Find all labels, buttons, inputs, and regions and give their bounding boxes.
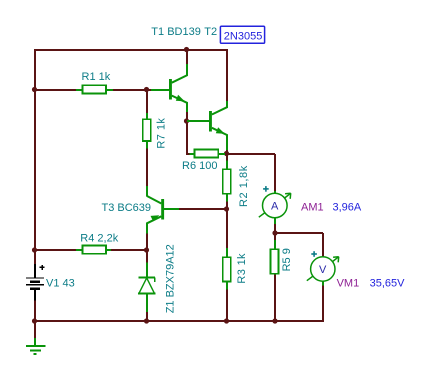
svg-text:AM1: AM1 xyxy=(301,202,324,214)
wire: T3 base row xyxy=(179,208,228,210)
node: left column / R4 junction xyxy=(32,247,37,252)
T3 emitter arrow xyxy=(151,215,160,221)
wire: R5 column lower xyxy=(274,274,276,322)
ammeter plus xyxy=(263,186,269,192)
svg-text:R2 1,8k: R2 1,8k xyxy=(238,165,250,207)
node: Z1 / bottom rail xyxy=(144,318,149,323)
voltmeter plus xyxy=(311,251,317,257)
svg-text:R5 9: R5 9 xyxy=(281,248,293,271)
wire: voltmeter column lower xyxy=(322,285,324,323)
resistor R6 xyxy=(190,149,226,157)
svg-text:R4 2,2k: R4 2,2k xyxy=(80,232,118,244)
wire: left column upper xyxy=(34,49,36,265)
wire: R5 column upper xyxy=(274,233,276,241)
wire: ammeter column upper xyxy=(274,154,276,192)
svg-text:R6 100: R6 100 xyxy=(182,160,217,172)
svg-text:VM1: VM1 xyxy=(337,278,360,290)
resistor R2 xyxy=(223,161,231,202)
wire: voltmeter column upper xyxy=(322,233,324,257)
transistor T2 xyxy=(187,101,227,150)
wire: R1 right segment xyxy=(113,89,151,91)
svg-text:2N3055: 2N3055 xyxy=(224,31,263,43)
svg-text:V: V xyxy=(319,264,327,276)
svg-text:T2: T2 xyxy=(204,26,217,38)
wire: R7 column upper xyxy=(146,90,148,120)
wire: R4 right segment xyxy=(111,249,148,251)
zener diode Z1 xyxy=(138,263,155,313)
wire: R2 column upper xyxy=(226,154,228,161)
resistor R4 xyxy=(76,246,111,254)
svg-text:R3 1k: R3 1k xyxy=(236,253,248,284)
wire: ammeter column lower xyxy=(274,224,276,234)
T2 emitter arrow xyxy=(216,127,225,134)
wire: am node to voltmeter column xyxy=(275,232,323,234)
node: left column / bottom rail junction xyxy=(32,318,37,323)
svg-text:R1 1k: R1 1k xyxy=(82,71,111,83)
wire: T3 emitter to Z1 node xyxy=(146,233,148,250)
resistor R3 xyxy=(223,248,231,290)
wire: R4 left segment xyxy=(34,249,76,251)
wire: top rail xyxy=(34,49,228,51)
wire: T2 collector to top rail corner xyxy=(226,49,228,101)
node: R1 / R7 junction xyxy=(144,87,149,92)
wire: T1 collector to top rail xyxy=(186,49,188,64)
voltmeter VM1 xyxy=(307,257,339,286)
resistor R1 xyxy=(76,85,113,93)
node: T1 collector / top rail xyxy=(184,47,189,52)
resistor R5 xyxy=(271,240,279,274)
label box 2N3055 xyxy=(220,26,264,43)
svg-text:T3 BC639: T3 BC639 xyxy=(102,202,152,214)
wire: R1 left segment xyxy=(34,89,76,91)
wire: T2 emitter to R6 node xyxy=(226,150,228,155)
node: R2 / R3 / T3 base junction xyxy=(224,206,229,211)
node: T1 emitter / T2 base junction xyxy=(184,118,189,123)
ground xyxy=(26,338,46,354)
wire: Z1 upper xyxy=(146,250,148,263)
node: R3 / bottom rail xyxy=(224,318,229,323)
svg-text:Z1 BZX79A12: Z1 BZX79A12 xyxy=(165,244,177,313)
wire: R3 column upper xyxy=(226,209,228,249)
transistor T1 xyxy=(151,64,187,112)
resistor R7 xyxy=(143,113,151,149)
wire: R7 column lower to T3 collector xyxy=(146,141,148,186)
node: T2 emitter / R6 / R2 junction xyxy=(224,151,229,156)
wire: left column below battery xyxy=(34,300,36,339)
wire: R3 column lower xyxy=(226,289,228,322)
battery V1 xyxy=(26,264,45,301)
ammeter AM1 xyxy=(259,191,291,224)
wire: output row to ammeter column xyxy=(227,153,275,155)
node: R5 / bottom rail xyxy=(272,318,277,323)
transistor T3 xyxy=(147,186,179,234)
wire: short to R6 left xyxy=(186,153,190,155)
svg-text:A: A xyxy=(271,201,279,213)
wire: Z1 lower xyxy=(146,311,148,322)
T1 emitter arrow xyxy=(176,95,185,102)
wire: bottom rail xyxy=(34,320,324,322)
svg-text:V1 43: V1 43 xyxy=(46,278,75,290)
svg-text:R7 1k: R7 1k xyxy=(156,118,168,149)
node: ammeter / R5 / VM junction xyxy=(272,230,277,235)
wire: T1e/T2b column down to R6 xyxy=(186,121,188,155)
svg-text:3,96A: 3,96A xyxy=(333,202,362,214)
svg-text:35,65V: 35,65V xyxy=(370,278,406,290)
node: left column / R1 junction xyxy=(32,87,37,92)
svg-text:T1 BD139: T1 BD139 xyxy=(151,26,201,38)
node: R4 / T3 emitter / Z1 junction xyxy=(144,247,149,252)
wire: T1 emitter down to T2 base node xyxy=(186,112,188,122)
wire: R2 column lower to T3 base node xyxy=(226,201,228,209)
